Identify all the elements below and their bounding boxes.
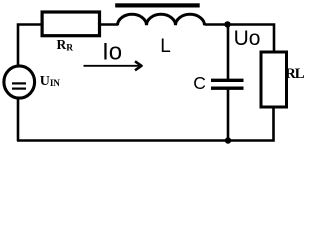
- wire: resistor to inductor: [99, 23, 118, 26]
- svg-text:Io: Io: [102, 39, 122, 66]
- voltage source UIN circle: [4, 66, 35, 98]
- wire: dot down to capacitor: [227, 25, 230, 80]
- wire: RL bottom to bottom rail: [17, 106, 274, 141]
- svg-text:Uo: Uo: [234, 27, 261, 50]
- svg-text:RL: RL: [285, 66, 305, 82]
- svg-text:C: C: [193, 73, 206, 93]
- resistor RR: [42, 12, 99, 36]
- wire: left vertical + top-left horizontal to resistor: [18, 25, 43, 67]
- node: top junction dot: [224, 21, 230, 27]
- node: bottom junction dot: [225, 137, 231, 143]
- inductor L (3 arcs): [118, 14, 205, 25]
- svg-text:L: L: [160, 36, 171, 57]
- resistor RL: [261, 52, 287, 107]
- = sign inside source: [12, 82, 26, 84]
- inductor core bar: [115, 3, 200, 7]
- wire: bottom-left up to source: [17, 98, 20, 141]
- arrow Io: [84, 65, 140, 67]
- wire: inductor to top-right corner, down to RL: [205, 25, 275, 54]
- capacitor C plates: [211, 79, 244, 82]
- wire: capacitor down to bottom rail: [227, 90, 230, 142]
